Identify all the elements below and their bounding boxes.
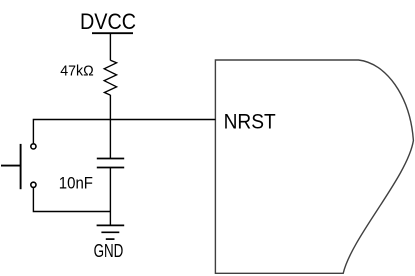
wire C1 bottom to ground xyxy=(109,168,111,226)
switch S1 actuator stem xyxy=(1,165,21,167)
capacitor C1 bottom plate xyxy=(97,167,124,169)
wire switch S1 bottom to ground rail xyxy=(33,188,110,212)
resistor R1 zigzag xyxy=(104,60,116,95)
wire node A to C1 top xyxy=(109,120,111,159)
MCU U1 outline xyxy=(215,60,413,273)
switch S1 top terminal xyxy=(31,144,36,149)
svg-text:DVCC: DVCC xyxy=(80,10,136,34)
power rail bar DVCC xyxy=(92,32,133,34)
svg-text:10nF: 10nF xyxy=(59,175,93,193)
wire switch S1 top to node A xyxy=(33,120,110,144)
wire DVCC bar to R1 xyxy=(109,33,111,60)
wire R1 to node A xyxy=(109,95,111,120)
svg-text:NRST: NRST xyxy=(224,110,276,133)
capacitor C1 top plate xyxy=(97,158,124,160)
svg-text:47kΩ: 47kΩ xyxy=(60,63,94,79)
ground bar 2 xyxy=(101,231,119,233)
ground bar 3 xyxy=(106,238,115,240)
ground bar 1 xyxy=(97,224,125,226)
switch S1 bottom terminal xyxy=(31,182,36,187)
wire node A to NRST pin xyxy=(110,119,215,121)
switch S1 actuator bar xyxy=(20,144,22,189)
svg-text:GND: GND xyxy=(94,241,124,262)
